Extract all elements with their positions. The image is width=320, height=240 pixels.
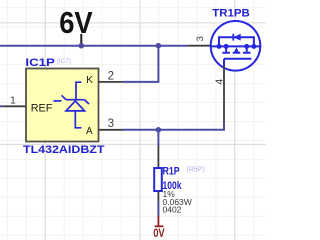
pin 1 REF (0, 105, 3, 107)
bulk arrow (234, 47, 240, 53)
TL431 reference symbol inside IC1P (54, 82, 90, 128)
svg-text:R1P: R1P (163, 165, 180, 177)
node junction on 6V rail (79, 43, 85, 49)
wire A net (pin3 to gate) (122, 121, 224, 130)
power port 6V (80, 34, 82, 46)
pin 2 K (99, 81, 123, 83)
node junction A/resistor (156, 127, 162, 133)
svg-text:(R5P): (R5P) (187, 166, 205, 173)
wire to resistor (157, 130, 159, 146)
gate bar (224, 58, 251, 60)
svg-text:2: 2 (108, 70, 114, 82)
svg-text:4: 4 (214, 79, 226, 85)
pin 4 gate lead (223, 66, 225, 121)
svg-text:TL432AIDBZT: TL432AIDBZT (23, 144, 105, 156)
svg-text:REF: REF (31, 102, 53, 114)
svg-text:3: 3 (108, 118, 114, 130)
pin 3 drain lead (189, 45, 211, 47)
svg-text:K: K (86, 75, 93, 86)
gate lead inside (223, 59, 225, 66)
svg-text:IC1P: IC1P (25, 57, 55, 69)
contact stubs (225, 46, 227, 51)
body diode path (219, 37, 254, 46)
svg-text:TR1PB: TR1PB (212, 7, 250, 19)
svg-text:A: A (86, 126, 93, 137)
body diode (232, 34, 234, 41)
svg-text:3: 3 (195, 36, 206, 41)
svg-text:0402: 0402 (163, 205, 182, 215)
pin 3 A (99, 129, 123, 131)
mosfet circle (211, 21, 261, 71)
node junction rail/K (156, 43, 162, 49)
svg-text:(IC7): (IC7) (57, 58, 71, 65)
wire K net (pin2 to rail) (122, 46, 158, 82)
source-drain line (211, 45, 260, 47)
wire resistor to 0V (157, 202, 159, 216)
power port 0V ground (155, 216, 164, 227)
junction dots inside mosfet (217, 44, 222, 49)
resistor R1P (157, 146, 159, 168)
op-amp U1 : IC1P TL432 body (26, 69, 99, 142)
svg-text:1: 1 (10, 95, 16, 107)
svg-text:0V: 0V (153, 226, 165, 240)
contact bars (222, 52, 250, 54)
svg-text:6V: 6V (59, 5, 93, 40)
wire 6V rail (0, 45, 189, 47)
